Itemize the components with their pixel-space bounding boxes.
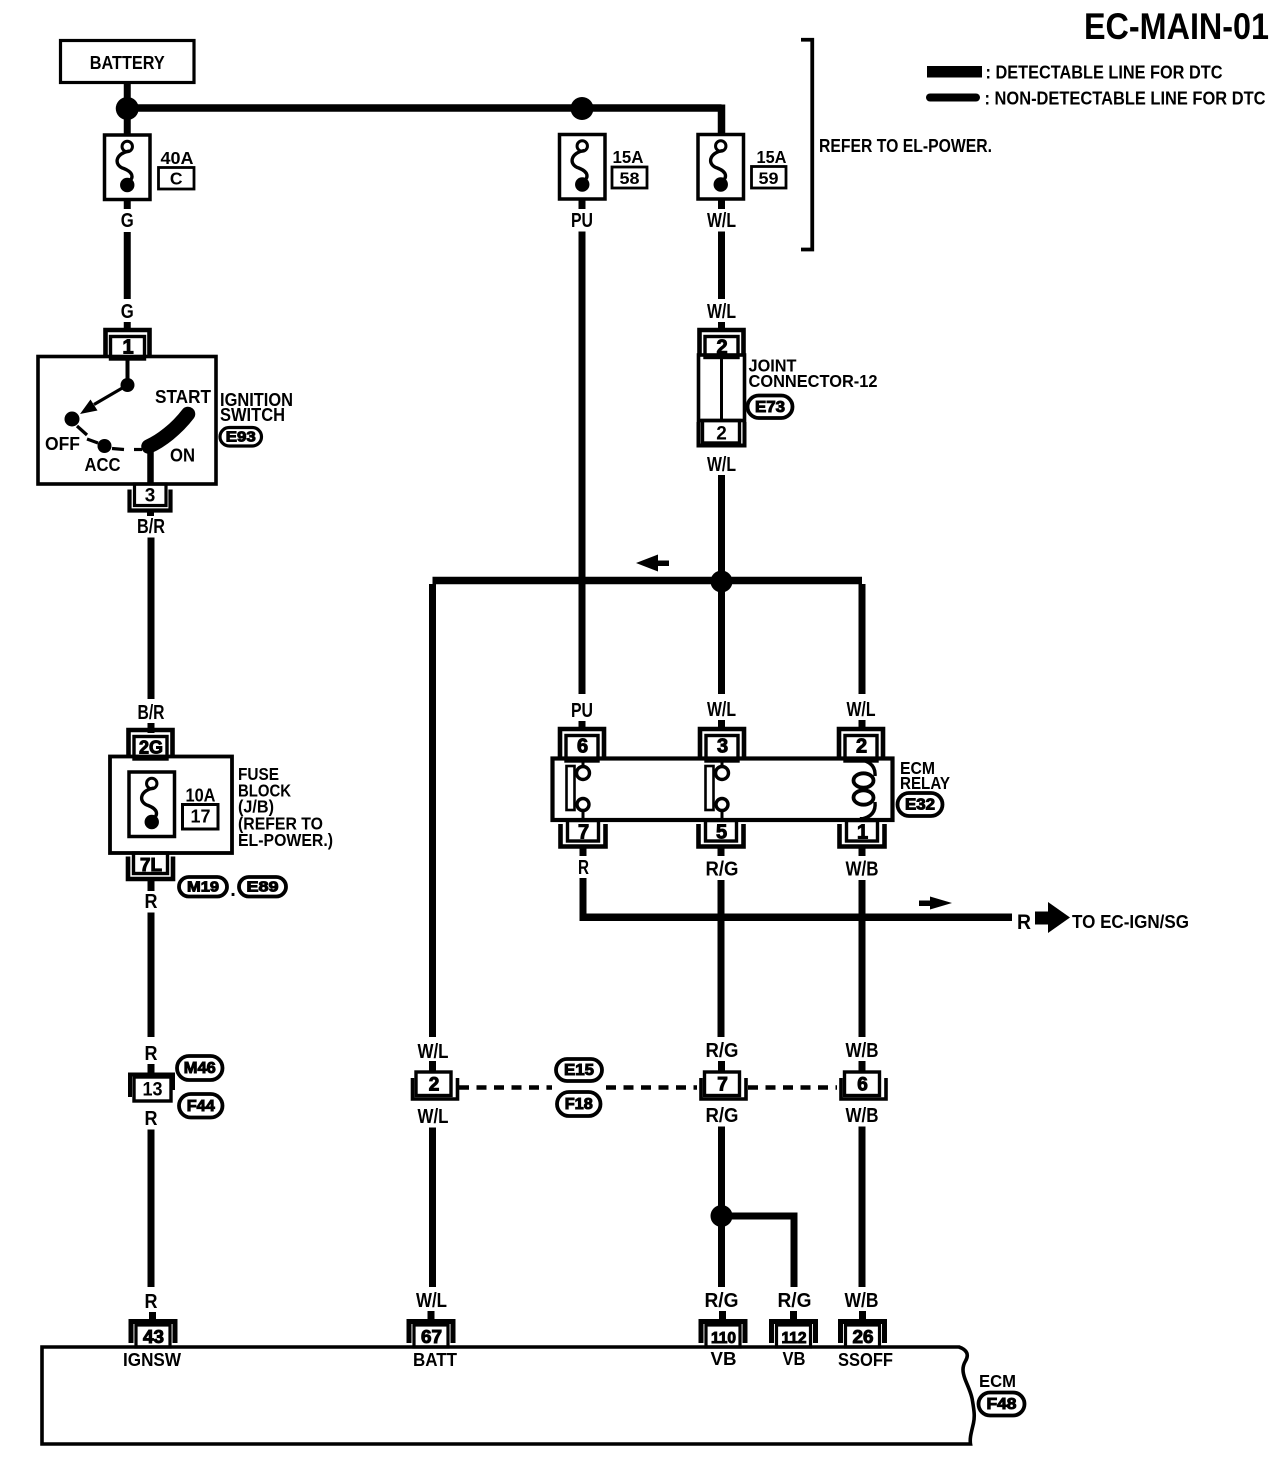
connector 1 ignition switch pin 1 — [106, 330, 150, 357]
svg-text:W/B: W/B — [845, 1290, 879, 1312]
label W/L — [418, 1041, 449, 1063]
svg-text:E15: E15 — [564, 1062, 594, 1079]
svg-text:VB: VB — [783, 1349, 806, 1369]
label R — [145, 1108, 158, 1130]
label R/G — [706, 1105, 739, 1127]
svg-text:R: R — [1017, 911, 1031, 934]
svg-text:17: 17 — [191, 807, 211, 827]
svg-text:1: 1 — [857, 822, 868, 844]
wire W/L down to relay pin 3 — [718, 586, 725, 694]
svg-text:59: 59 — [759, 169, 779, 188]
label IGNITION SWITCH — [220, 390, 293, 425]
wire W/L — [718, 232, 725, 300]
connector 2G — [129, 730, 173, 757]
wire junction to fuse C — [124, 117, 131, 135]
relay pin 7 — [568, 821, 599, 842]
svg-text:ECM: ECM — [979, 1371, 1016, 1391]
svg-text:B/R: B/R — [137, 516, 165, 538]
fuse 59 15A — [698, 135, 744, 200]
wire W/L long — [429, 1128, 436, 1288]
svg-text:E93: E93 — [226, 428, 256, 445]
wire branch right down to relay pin 2 — [859, 584, 866, 694]
wire to terminal 26 — [859, 1311, 866, 1322]
svg-text:G: G — [121, 210, 134, 232]
connector refs M19 . E89 — [179, 877, 227, 897]
svg-text:67: 67 — [421, 1327, 442, 1347]
wire R/G down — [718, 1226, 725, 1287]
wire to terminal 112 — [790, 1311, 797, 1322]
svg-text:58: 58 — [620, 169, 640, 188]
connector 3 ignition switch pin 3 — [135, 484, 167, 506]
wire 7L down — [148, 880, 155, 892]
svg-text:E73: E73 — [755, 399, 785, 416]
wire R to connector 13 — [148, 1064, 155, 1074]
wire battery to junction — [124, 83, 131, 101]
svg-text:W/B: W/B — [846, 1105, 879, 1127]
svg-text:2: 2 — [429, 1075, 440, 1096]
ignition switch internal: ON rotor crescent — [149, 414, 189, 447]
svg-text:F18: F18 — [565, 1096, 593, 1113]
svg-text:IGNSW: IGNSW — [123, 1350, 181, 1370]
label FUSE BLOCK (J/B) (REFER TO EL-POWER.) — [238, 764, 333, 850]
label R/G — [705, 1290, 739, 1312]
ignition switch internal: feed wire — [126, 358, 130, 382]
wire W/L to joint connector — [718, 322, 725, 332]
connector 7 — [705, 1072, 740, 1096]
svg-text:PU: PU — [571, 700, 593, 722]
label W/L — [847, 699, 876, 721]
node bus junction at PU feed — [571, 97, 594, 120]
svg-text:W/L: W/L — [418, 1041, 449, 1063]
ECM relay E32 box — [553, 759, 893, 821]
svg-text:6: 6 — [857, 1075, 868, 1096]
wire relay pin 1 down — [859, 847, 866, 856]
svg-text:.: . — [230, 879, 236, 901]
svg-text:R/G: R/G — [706, 859, 739, 881]
svg-text:15A: 15A — [613, 147, 644, 167]
label ECM RELAY — [900, 758, 950, 793]
svg-text:SWITCH: SWITCH — [220, 405, 285, 425]
label G — [121, 301, 134, 323]
svg-text:M46: M46 — [184, 1060, 216, 1077]
connector ref F48 — [979, 1393, 1025, 1416]
dashed link 2 to E15/F18 — [459, 1085, 552, 1090]
svg-text:BATT: BATT — [413, 1350, 457, 1370]
fuse 10A 17 — [129, 772, 175, 837]
label PU — [571, 700, 593, 722]
battery — [61, 41, 195, 83]
svg-text:R/G: R/G — [706, 1040, 739, 1062]
svg-text:M19: M19 — [187, 878, 219, 895]
svg-text:2: 2 — [716, 424, 727, 445]
fuse 58 15A — [560, 135, 606, 200]
svg-text:W/L: W/L — [418, 1106, 449, 1128]
svg-text:R: R — [578, 857, 589, 879]
label W/L — [707, 301, 736, 323]
svg-text:7L: 7L — [140, 855, 162, 875]
svg-text:E89: E89 — [247, 878, 279, 895]
svg-text:13: 13 — [143, 1080, 163, 1101]
label R — [145, 1043, 158, 1065]
svg-text:R/G: R/G — [778, 1290, 812, 1312]
svg-text:START: START — [155, 387, 211, 407]
svg-text:RELAY: RELAY — [900, 773, 950, 793]
svg-text:ON: ON — [170, 446, 195, 466]
wire R down to branch — [580, 878, 587, 917]
label PU — [571, 210, 593, 232]
svg-text:W/L: W/L — [707, 301, 736, 323]
joint connector-12 bottom pin 2 — [703, 421, 740, 444]
svg-text:TO EC-IGN/SG: TO EC-IGN/SG — [1072, 912, 1189, 932]
terminal 67 BATT — [409, 1322, 453, 1344]
connector refs E15 F18 — [556, 1059, 602, 1081]
label R at EC-IGN/SG — [1017, 911, 1031, 934]
ECM box F48 — [42, 1347, 974, 1444]
relay contact pins 3-5 — [721, 759, 724, 767]
svg-text:110: 110 — [711, 1330, 736, 1347]
connector 13 — [134, 1077, 171, 1101]
arrow to EC-IGN/SG — [1035, 912, 1049, 925]
svg-text:43: 43 — [143, 1327, 164, 1347]
wire R/G junction branch right — [722, 1213, 795, 1220]
svg-text:VB: VB — [711, 1349, 737, 1369]
label R/G — [706, 1040, 739, 1062]
svg-text:R: R — [145, 1108, 158, 1130]
wire branch horizontal — [433, 577, 863, 585]
svg-text:7: 7 — [578, 822, 589, 844]
wire branch left down to BATT — [429, 584, 436, 1037]
label W/B — [846, 859, 879, 881]
node battery junction — [116, 97, 139, 120]
svg-text:2G: 2G — [139, 738, 163, 758]
fuse C 40A — [105, 135, 151, 200]
relay pin 1 — [847, 821, 878, 842]
wire fuse 59 down — [718, 199, 725, 209]
wire W/L to junction — [718, 475, 725, 575]
svg-text:F48: F48 — [987, 1396, 1017, 1413]
dashed link E15/F18 to 7 — [606, 1085, 697, 1090]
svg-text:26: 26 — [853, 1327, 874, 1347]
svg-text:3: 3 — [145, 486, 156, 507]
connector 7L — [134, 853, 168, 874]
ignition switch internal: ON wire down — [147, 452, 154, 483]
svg-text:112: 112 — [782, 1330, 807, 1347]
terminal 112 VB — [772, 1322, 816, 1344]
wire to terminal 67 — [428, 1311, 435, 1322]
terminal 26 SSOFF — [841, 1322, 885, 1344]
svg-text:PU: PU — [571, 210, 593, 232]
svg-text:G: G — [121, 301, 134, 323]
svg-text:7: 7 — [717, 1075, 728, 1096]
label B/R — [138, 702, 165, 724]
svg-text:R: R — [145, 1291, 158, 1313]
svg-text:15A: 15A — [757, 147, 787, 167]
svg-text:: NON-DETECTABLE LINE FOR DTC: : NON-DETECTABLE LINE FOR DTC — [985, 89, 1266, 109]
label W/B — [846, 1105, 879, 1127]
wire to terminal 110 — [719, 1311, 726, 1322]
svg-text:40A: 40A — [161, 148, 194, 168]
svg-text:R/G: R/G — [705, 1290, 739, 1312]
ignition switch internal: ACC contact — [98, 439, 112, 453]
label W/L — [707, 210, 736, 232]
wire relay pin 5 down — [718, 847, 725, 856]
legend non-detectable line sample — [926, 94, 980, 102]
svg-text:F44: F44 — [187, 1098, 215, 1115]
wire R long — [148, 913, 155, 1038]
wire B/R to 2G — [148, 723, 155, 733]
wire R to terminal 43 — [149, 1312, 156, 1322]
label W/L — [707, 699, 736, 721]
svg-text:5: 5 — [716, 822, 727, 844]
label R — [145, 891, 158, 913]
svg-text:EL-POWER.): EL-POWER.) — [238, 830, 333, 850]
wire B/R long — [148, 538, 155, 700]
relay coil pins 2-1 — [860, 759, 863, 762]
svg-text:B/R: B/R — [138, 702, 165, 724]
svg-text:CONNECTOR-12: CONNECTOR-12 — [749, 371, 878, 391]
connector 6 — [845, 1072, 880, 1096]
svg-text:E32: E32 — [905, 797, 935, 814]
node W/L junction — [711, 571, 733, 593]
connector ref E73 — [748, 396, 793, 419]
wire main bus — [127, 104, 721, 112]
terminal 43 IGNSW — [131, 1322, 175, 1344]
svg-text:W/L: W/L — [416, 1290, 447, 1312]
label JOINT CONNECTOR-12 — [749, 356, 878, 392]
label W/L — [418, 1106, 449, 1128]
svg-text:SSOFF: SSOFF — [838, 1350, 893, 1370]
wire bus elbow down to fuse 59 — [718, 105, 726, 135]
svg-text:6: 6 — [577, 736, 588, 758]
svg-text:: DETECTABLE LINE FOR DTC: : DETECTABLE LINE FOR DTC — [986, 63, 1223, 83]
svg-text:ACC: ACC — [85, 455, 121, 475]
relay contact pins 6-7 — [582, 759, 585, 767]
wire fuse C down — [124, 200, 131, 210]
wire R branch to EC-IGN/SG — [580, 914, 1013, 922]
label R/G — [706, 859, 739, 881]
label W/B — [845, 1290, 879, 1312]
wire PU long — [579, 232, 586, 695]
dashed link 7 to 6 — [748, 1085, 837, 1090]
relay pin 6 — [560, 729, 604, 759]
svg-text:10A: 10A — [186, 786, 216, 806]
legend detectable line sample — [927, 66, 982, 78]
wire R long to ECM — [148, 1130, 155, 1288]
label B/R — [137, 516, 165, 538]
svg-text:BATTERY: BATTERY — [90, 53, 165, 73]
bracket refer to EL-POWER — [801, 40, 812, 250]
connector refs M46 F44 — [177, 1056, 223, 1080]
wire W/B long — [859, 1127, 866, 1288]
label W/B — [846, 1040, 879, 1062]
wire PU to relay pin 6 — [579, 721, 586, 731]
wire R/G to junction — [718, 1127, 725, 1211]
label START — [155, 387, 211, 407]
svg-text:W/B: W/B — [846, 859, 879, 881]
svg-text:W/L: W/L — [707, 210, 736, 232]
svg-text:W/B: W/B — [846, 1040, 879, 1062]
arrow left above branch line — [636, 555, 658, 572]
arrow right above R line — [930, 897, 952, 910]
svg-text:2: 2 — [856, 736, 867, 758]
joint connector-12 top pin 2 — [700, 330, 744, 355]
wire relay pin 7 down — [580, 847, 587, 856]
relay pin 2 — [839, 729, 883, 759]
svg-text:W/L: W/L — [707, 454, 736, 476]
wire G to connector 1 — [124, 322, 131, 332]
label W/L — [707, 454, 736, 476]
ignition switch internal: wiper arm — [94, 385, 128, 405]
svg-text:R: R — [145, 1043, 158, 1065]
connector 2 — [416, 1072, 451, 1096]
fuse block J/B box — [110, 757, 232, 854]
relay pin 3 — [700, 729, 744, 759]
svg-text:W/L: W/L — [847, 699, 876, 721]
svg-text:EC-MAIN-01: EC-MAIN-01 — [1084, 6, 1269, 47]
legend non-detectable text — [985, 89, 1266, 109]
svg-text:C: C — [170, 169, 183, 189]
label R — [145, 1291, 158, 1313]
label TO EC-IGN/SG — [1072, 912, 1189, 932]
wire G to G — [124, 232, 131, 299]
label R/G — [778, 1290, 812, 1312]
wire pin3 down — [147, 511, 154, 517]
svg-text:3: 3 — [717, 736, 728, 758]
label ECM — [979, 1371, 1016, 1391]
svg-text:OFF: OFF — [45, 434, 80, 454]
legend detectable text — [986, 63, 1223, 83]
relay pin 5 — [706, 821, 737, 842]
terminal 110 VB — [701, 1322, 745, 1344]
svg-text:R/G: R/G — [706, 1105, 739, 1127]
label G — [121, 210, 134, 232]
joint connector-12 body E73 — [699, 355, 745, 421]
node R/G junction — [711, 1205, 733, 1227]
title EC-MAIN-01 — [1084, 6, 1269, 47]
ignition switch internal: common node — [121, 378, 135, 392]
wire fuse 58 down — [579, 199, 586, 209]
svg-text:R: R — [145, 891, 158, 913]
ignition switch E93 box — [38, 357, 216, 485]
connector ref E32 — [898, 793, 943, 816]
connector ref E93 — [220, 428, 262, 447]
label ON — [170, 446, 195, 466]
svg-text:W/L: W/L — [707, 699, 736, 721]
svg-text:REFER TO EL-POWER.: REFER TO EL-POWER. — [819, 136, 992, 156]
label W/L — [416, 1290, 447, 1312]
ignition switch internal: OFF contact — [65, 412, 80, 427]
label R — [578, 857, 589, 879]
